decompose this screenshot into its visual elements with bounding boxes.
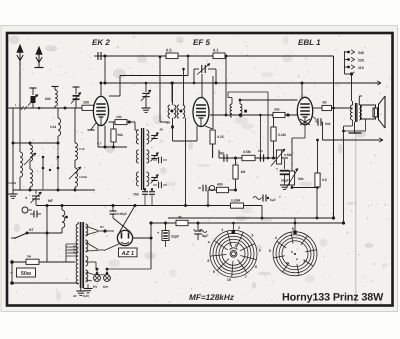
lamp PV bbox=[94, 275, 101, 282]
coil L6 bbox=[75, 168, 78, 187]
svg-text:3: 3 bbox=[251, 233, 253, 237]
resistor R 50 bbox=[322, 105, 332, 110]
junction bbox=[49, 169, 51, 171]
capacitor stub a bbox=[158, 157, 160, 164]
wire bbox=[19, 108, 21, 152]
svg-text:100: 100 bbox=[83, 101, 89, 105]
wire EK2 top cap bbox=[100, 83, 102, 97]
wire web2 lead bbox=[294, 218, 296, 231]
wire top bus bbox=[97, 55, 334, 57]
svg-text:6,3V: 6,3V bbox=[83, 294, 89, 298]
resistor R 1M bbox=[235, 158, 237, 165]
resistor R 0.5 vert bbox=[317, 140, 319, 173]
svg-text:500: 500 bbox=[298, 177, 304, 181]
svg-text:750: 750 bbox=[133, 193, 139, 197]
coil L2 bbox=[20, 152, 23, 177]
wire bbox=[301, 83, 303, 98]
EK2 grid bar bbox=[91, 123, 96, 130]
svg-text:50k: 50k bbox=[118, 133, 124, 137]
tap primary bbox=[345, 73, 352, 75]
svg-text:5A: 5A bbox=[27, 255, 32, 259]
wire bbox=[74, 108, 76, 143]
svg-text:9: 9 bbox=[213, 270, 215, 274]
wire EF5 cathode bbox=[212, 144, 214, 158]
svg-text:5: 5 bbox=[259, 248, 261, 252]
resistor R 400 bbox=[217, 187, 229, 192]
svg-text:+: + bbox=[276, 167, 278, 171]
svg-text:400: 400 bbox=[217, 182, 223, 186]
wire cathode row bbox=[98, 146, 127, 148]
svg-text:110: 110 bbox=[358, 66, 364, 70]
wire lamps bbox=[92, 273, 97, 276]
svg-text:EF 5: EF 5 bbox=[193, 38, 210, 47]
tube EBL1 U3 bbox=[297, 97, 312, 124]
capacitor 8uF bbox=[197, 223, 199, 230]
wire bottom left bbox=[11, 262, 13, 283]
svg-text:200: 200 bbox=[274, 108, 280, 112]
svg-text:MF=128kHz: MF=128kHz bbox=[189, 293, 235, 302]
coil L4 bbox=[30, 169, 33, 187]
wire bbox=[267, 92, 269, 158]
svg-text:0.1: 0.1 bbox=[213, 48, 219, 53]
wire bbox=[228, 91, 268, 93]
svg-text:0.33: 0.33 bbox=[50, 125, 56, 129]
wire grid link bbox=[120, 75, 188, 77]
svg-text:32μF: 32μF bbox=[171, 235, 180, 239]
resistor R 200 bbox=[273, 112, 285, 117]
antenna A2 bbox=[35, 47, 44, 68]
wire long vertical T3 bbox=[185, 118, 187, 206]
wire nested corner bbox=[292, 187, 317, 189]
rect fan bbox=[86, 242, 98, 250]
trimmer C1 bbox=[32, 88, 34, 95]
capacitor C 400 bbox=[223, 154, 225, 162]
switch NT bbox=[26, 232, 29, 235]
svg-text:0.10: 0.10 bbox=[79, 147, 85, 151]
lamp wires bbox=[86, 272, 92, 274]
wire T5 top bbox=[231, 98, 233, 105]
break marks bbox=[21, 106, 27, 110]
svg-text:5: 5 bbox=[286, 261, 288, 265]
wire bbox=[27, 232, 62, 234]
heater wire bbox=[86, 261, 96, 263]
svg-text:8: 8 bbox=[207, 259, 209, 263]
resistor R 100 anode bbox=[115, 120, 127, 125]
capacitor C-top-left bbox=[97, 52, 99, 60]
wire T2 top bbox=[350, 107, 353, 109]
speaker SP bbox=[361, 105, 376, 119]
wire MF bus bbox=[36, 205, 262, 207]
dial coil D2 bbox=[269, 227, 317, 276]
wire AZ1 cathode bbox=[133, 237, 151, 239]
coil L 0.33 bbox=[58, 118, 61, 136]
svg-text:600: 600 bbox=[45, 97, 51, 101]
tube EF5 U2 bbox=[193, 98, 209, 127]
capacitor 0.05uF bbox=[110, 210, 117, 212]
wire bbox=[225, 56, 227, 115]
wire EF5 top cap bbox=[201, 74, 203, 98]
coil L 600 bbox=[54, 87, 56, 91]
wire bbox=[261, 206, 263, 219]
wire lamp feed bbox=[108, 268, 151, 270]
wire T3 left feed bbox=[159, 57, 161, 122]
svg-text:50w: 50w bbox=[21, 271, 32, 277]
transformer T1 core bbox=[80, 222, 82, 288]
capacitor stub b bbox=[158, 182, 160, 189]
wire bbox=[29, 143, 31, 145]
transformer T2 secondary bbox=[359, 105, 361, 120]
lamp 6V bbox=[104, 275, 111, 282]
svg-text:400: 400 bbox=[219, 152, 225, 156]
svg-text:+: + bbox=[193, 228, 195, 232]
wire bottom bbox=[13, 189, 95, 191]
svg-text:1: 1 bbox=[221, 228, 223, 232]
svg-text:0.0008: 0.0008 bbox=[8, 182, 16, 185]
resistor R 0.5M top bbox=[166, 53, 178, 59]
capacitor T4 bottom b bbox=[151, 188, 153, 191]
svg-text:0.5M: 0.5M bbox=[284, 153, 292, 157]
junction bbox=[225, 55, 228, 58]
resistor R 0.15 bbox=[212, 76, 214, 129]
T4 winding 1 bbox=[136, 130, 138, 144]
primary taps bbox=[66, 243, 78, 245]
wire anode diagonals bbox=[113, 218, 131, 232]
junction square T3 bbox=[171, 126, 174, 129]
svg-text:4: 4 bbox=[275, 236, 277, 240]
wire bbox=[239, 115, 241, 117]
wire T3 primary top bbox=[172, 83, 174, 105]
wire EBL1 grid bbox=[210, 114, 298, 116]
coil L3 bbox=[30, 145, 33, 161]
junction square bbox=[244, 110, 247, 113]
wire bbox=[13, 142, 58, 144]
svg-text:240: 240 bbox=[358, 51, 364, 55]
resistor R 50k bbox=[113, 122, 115, 129]
wire bbox=[57, 108, 59, 118]
wire bbox=[194, 68, 199, 70]
wire bbox=[207, 190, 209, 206]
capacitor C 500 bbox=[312, 116, 316, 119]
svg-text:0.05μF: 0.05μF bbox=[117, 212, 127, 216]
svg-text:4V: 4V bbox=[73, 294, 77, 298]
dial coil D1 bbox=[207, 226, 260, 282]
svg-text:Horny133 Prinz 38W: Horny133 Prinz 38W bbox=[282, 292, 384, 304]
trimmer arrow bbox=[24, 153, 36, 165]
resistor R 100 bbox=[82, 105, 94, 110]
variable capacitor C osc bbox=[145, 83, 147, 92]
wire bbox=[171, 83, 173, 102]
wire screen bus bbox=[103, 82, 381, 84]
HT fan bbox=[86, 226, 98, 231]
svg-text:0.5: 0.5 bbox=[166, 48, 172, 53]
trimmer T4b bbox=[151, 155, 158, 157]
svg-text:3: 3 bbox=[235, 243, 237, 247]
antenna A1 bbox=[17, 45, 23, 109]
svg-text:1M: 1M bbox=[241, 170, 246, 174]
svg-text:0.0008: 0.0008 bbox=[79, 176, 87, 179]
wire left rail bbox=[12, 108, 14, 190]
svg-text:4: 4 bbox=[208, 241, 210, 245]
svg-text:6: 6 bbox=[255, 265, 257, 269]
capacitor stub bbox=[33, 211, 35, 218]
wire bbox=[97, 125, 99, 147]
capacitor 32uF bbox=[165, 223, 167, 230]
svg-text:0.5: 0.5 bbox=[322, 178, 327, 182]
svg-text:50: 50 bbox=[323, 100, 327, 104]
transformer T2 primary bbox=[350, 105, 352, 120]
ground left rail bbox=[12, 190, 14, 194]
trimmer T4a bbox=[151, 135, 158, 137]
svg-text:3: 3 bbox=[303, 260, 305, 264]
dial coil D1 hub bbox=[232, 252, 236, 256]
padder stub A bbox=[42, 157, 44, 168]
ground transformer bbox=[80, 288, 82, 291]
resistor R 0.1M top bbox=[213, 53, 225, 59]
junction bbox=[104, 55, 107, 58]
wire antenna input bbox=[9, 107, 94, 109]
capacitor 50uF electrolytic bbox=[284, 159, 286, 169]
svg-text:a: a bbox=[296, 257, 298, 261]
coil L5 bbox=[75, 143, 78, 160]
wire web1 lead bbox=[233, 223, 235, 230]
svg-text:100: 100 bbox=[116, 115, 122, 119]
trimmer C EF5 grid bbox=[201, 65, 203, 73]
svg-text:AZ 1: AZ 1 bbox=[121, 251, 135, 257]
svg-text:~: ~ bbox=[10, 271, 13, 277]
svg-text:220: 220 bbox=[358, 59, 364, 63]
trimmer arrow bbox=[69, 167, 81, 179]
trimmer T4c bbox=[151, 177, 158, 179]
resistor R 0.25M bbox=[231, 203, 244, 208]
svg-text:b: b bbox=[291, 250, 293, 254]
capacitor T4 bottom a bbox=[144, 188, 146, 191]
wire taps vertical bbox=[344, 51, 346, 74]
svg-text:MF: MF bbox=[48, 199, 53, 203]
wire speaker return bbox=[365, 119, 367, 131]
svg-text:6: 6 bbox=[269, 249, 271, 253]
tap 240V bbox=[345, 51, 350, 53]
wire mains to arrow bbox=[323, 139, 384, 141]
wire bbox=[104, 56, 106, 83]
svg-text:10: 10 bbox=[227, 278, 231, 282]
resistor R 2k bbox=[176, 220, 188, 225]
junction bbox=[38, 107, 41, 110]
wire B+ rail bbox=[151, 222, 344, 224]
svg-text:0.1: 0.1 bbox=[166, 121, 170, 125]
transformer T2 core bbox=[355, 103, 357, 122]
svg-text:HT: HT bbox=[100, 225, 104, 229]
mains filter squiggle bbox=[253, 197, 261, 200]
coil L8 bbox=[61, 206, 63, 211]
wire T3 secondary top bbox=[183, 69, 185, 105]
junction bbox=[64, 107, 67, 110]
wire bbox=[259, 115, 261, 154]
jack TA bbox=[209, 185, 214, 190]
speaker stand bbox=[354, 122, 356, 133]
svg-text:50: 50 bbox=[160, 128, 164, 132]
wire T3 to EF5 cathode bbox=[173, 140, 198, 142]
variable capacitor C2 bbox=[75, 87, 77, 94]
transformer T1 secondary bbox=[86, 224, 88, 236]
wire bbox=[208, 189, 237, 191]
capacitor C 2n bbox=[259, 154, 261, 162]
potentiometer P1 bbox=[276, 150, 281, 164]
svg-text:0.1M: 0.1M bbox=[278, 133, 286, 137]
wire B+ vertical bbox=[333, 56, 335, 218]
svg-text:500: 500 bbox=[325, 122, 331, 126]
wire primary bottom bbox=[77, 283, 79, 284]
svg-text:8μF: 8μF bbox=[202, 234, 209, 238]
svg-text:0.25M: 0.25M bbox=[231, 198, 240, 202]
squiggle 2 bbox=[199, 230, 207, 233]
IF transformer T4 core bbox=[141, 128, 143, 190]
T4 winding 2 bbox=[136, 150, 138, 163]
wire AF row bbox=[219, 157, 288, 159]
svg-text:0.15: 0.15 bbox=[217, 135, 224, 139]
tap 220V bbox=[345, 59, 350, 61]
wire bbox=[240, 99, 298, 101]
svg-text:4: 4 bbox=[25, 196, 27, 200]
tube EK2 U1 bbox=[93, 96, 108, 125]
tube AZ1 U4 bbox=[117, 230, 132, 245]
svg-text:EK 2: EK 2 bbox=[92, 38, 110, 47]
svg-text:EBL 1: EBL 1 bbox=[298, 38, 321, 47]
tap 110V bbox=[345, 66, 350, 68]
wire speaker top bbox=[358, 96, 360, 105]
padder stub B bbox=[57, 157, 59, 168]
resistor R 0.1M bbox=[273, 115, 275, 127]
svg-text:0.5M: 0.5M bbox=[243, 150, 251, 154]
svg-text:6V+: 6V+ bbox=[103, 285, 109, 289]
fuse row bbox=[12, 261, 75, 263]
label AZ1 bbox=[119, 248, 138, 257]
wire EK2 anode bbox=[109, 121, 115, 123]
IF transformer T5 bbox=[230, 104, 232, 117]
svg-text:6μF: 6μF bbox=[270, 198, 276, 202]
potentiometer P500 bbox=[291, 138, 293, 171]
wire T2 bottom bbox=[352, 120, 354, 126]
svg-text:2: 2 bbox=[238, 226, 240, 230]
resistor R 0.5M bbox=[242, 155, 255, 160]
wire AZ1 heater bbox=[104, 244, 120, 251]
T4 winding 3 bbox=[136, 172, 138, 186]
jack J1 bbox=[22, 207, 28, 213]
wire EBL1 anode bbox=[313, 107, 322, 109]
IF transformer T3 bbox=[168, 105, 170, 118]
svg-text:7: 7 bbox=[245, 275, 247, 279]
wire EBL1 cathode bbox=[304, 125, 306, 139]
transformer T1 primary bbox=[76, 224, 78, 284]
trimmer C mf bbox=[35, 190, 37, 194]
svg-text:2: 2 bbox=[229, 243, 231, 247]
svg-text:+: + bbox=[279, 195, 281, 199]
wire ground rail bbox=[168, 217, 334, 219]
